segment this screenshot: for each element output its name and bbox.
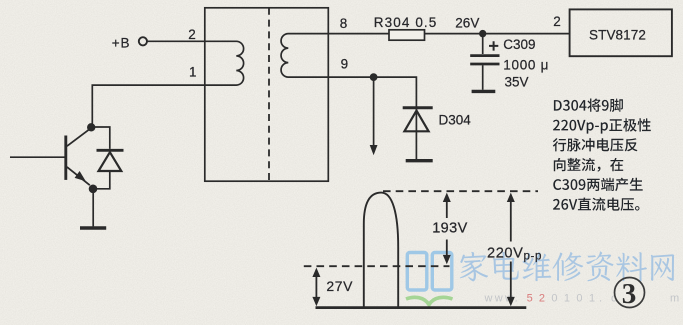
svg-text:9: 9 bbox=[341, 57, 349, 72]
svg-text:m: m bbox=[670, 293, 679, 305]
svg-text:52: 52 bbox=[527, 293, 552, 305]
svg-text:193V: 193V bbox=[432, 221, 467, 237]
svg-text:STV8172: STV8172 bbox=[589, 28, 646, 43]
svg-text:3: 3 bbox=[622, 278, 637, 310]
svg-text:27V: 27V bbox=[326, 278, 353, 294]
svg-text:C309: C309 bbox=[503, 37, 535, 52]
svg-text:1: 1 bbox=[189, 65, 197, 80]
svg-text:2: 2 bbox=[188, 27, 196, 42]
svg-text:8: 8 bbox=[340, 16, 348, 31]
svg-text:R304 0.5: R304 0.5 bbox=[374, 15, 438, 30]
svg-text:26V: 26V bbox=[455, 15, 479, 30]
svg-text:0101: 0101 bbox=[551, 293, 601, 305]
svg-text:D304: D304 bbox=[439, 112, 472, 127]
svg-text:35V: 35V bbox=[505, 74, 529, 89]
svg-text:.: . bbox=[599, 293, 602, 305]
svg-text:www.: www. bbox=[484, 293, 520, 305]
svg-text:1000 μ: 1000 μ bbox=[503, 58, 549, 73]
svg-text:2: 2 bbox=[553, 14, 561, 29]
svg-text:+B: +B bbox=[112, 36, 131, 51]
